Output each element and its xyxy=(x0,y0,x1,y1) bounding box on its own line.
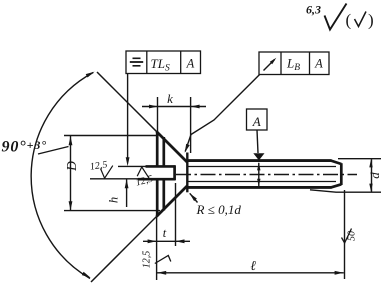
runout symbol xyxy=(264,60,275,71)
dimension d extension top xyxy=(338,158,381,160)
slot top edge thick xyxy=(146,165,176,168)
slot top edge extension thin xyxy=(118,165,146,167)
dimension t extension right xyxy=(175,183,177,246)
svg-text:): ) xyxy=(368,11,374,30)
datum leader xyxy=(257,130,258,153)
svg-text:A: A xyxy=(252,114,261,129)
svg-text:(: ( xyxy=(346,11,352,30)
symmetry symbol xyxy=(133,57,141,59)
dimension l extension right xyxy=(344,190,346,279)
dimension D line xyxy=(70,136,72,210)
dimension d extension bottom xyxy=(310,190,381,192)
head inner line upper part xyxy=(162,137,165,166)
svg-text:A: A xyxy=(186,57,195,71)
dimension d line xyxy=(371,159,373,192)
roughness 50 xyxy=(342,229,352,244)
svg-text:50: 50 xyxy=(347,231,358,241)
dimension l line xyxy=(157,272,344,274)
dimension k extension right xyxy=(190,97,192,153)
head inner line lower part xyxy=(162,180,165,211)
svg-text:D: D xyxy=(64,161,79,172)
datum triangle xyxy=(253,153,264,160)
label leader 90deg xyxy=(38,147,69,155)
datum A box xyxy=(247,109,268,130)
shank bottom line xyxy=(187,186,332,189)
slot bottom edge extension thin xyxy=(90,178,139,180)
center line xyxy=(176,174,357,176)
svg-text:12,5: 12,5 xyxy=(142,251,153,269)
cone edge upper thick xyxy=(157,132,188,163)
chamfer bottom xyxy=(331,184,341,187)
chamfer top xyxy=(331,161,341,164)
svg-text:d: d xyxy=(367,172,382,179)
thread minor top line xyxy=(188,166,336,168)
dimension k line xyxy=(142,106,206,108)
dimension D extension top xyxy=(64,135,157,137)
dimension t extension left / l extension left xyxy=(156,216,158,280)
dimension t line xyxy=(143,240,190,242)
end face xyxy=(340,163,343,185)
dimension k extension left xyxy=(157,97,159,133)
shank top line xyxy=(187,159,332,162)
cone base junction line xyxy=(186,153,188,193)
svg-text:LB: LB xyxy=(286,56,300,74)
svg-text:k: k xyxy=(167,91,173,106)
arc arrowhead bottom xyxy=(82,272,91,278)
dimension D extension bottom xyxy=(64,210,160,212)
slot bottom closure xyxy=(173,165,176,180)
svg-text:TLS: TLS xyxy=(151,56,170,74)
arc arrowhead top xyxy=(86,72,95,78)
svg-text:t: t xyxy=(163,226,167,240)
cone edge lower thick xyxy=(157,186,188,217)
head face line upper part xyxy=(156,132,159,166)
head face line lower part xyxy=(156,180,159,217)
slot bottom edge thick xyxy=(138,178,176,181)
svg-text:R ≤ 0,1d: R ≤ 0,1d xyxy=(196,202,242,217)
fillet radius leader xyxy=(190,193,198,202)
svg-text:h: h xyxy=(107,197,121,203)
tolerance frame TLs leader xyxy=(127,74,129,161)
dimension h line xyxy=(126,179,128,207)
svg-text:6,3: 6,3 xyxy=(306,3,321,17)
svg-text:ℓ: ℓ xyxy=(250,258,256,273)
roughness 12,5 under slot top line xyxy=(137,167,149,179)
cone edge extension lower diagonal xyxy=(91,186,188,283)
tolerance frame LB box xyxy=(259,52,329,75)
thread minor bottom line xyxy=(188,181,336,183)
cone edge extension upper diagonal xyxy=(97,72,188,163)
tolerance frame TLs box xyxy=(126,51,201,74)
svg-text:A: A xyxy=(314,57,323,71)
shank diameter dimension line xyxy=(258,163,260,187)
angle arc 90deg xyxy=(31,73,93,279)
svg-text:12,5: 12,5 xyxy=(89,159,108,172)
tolerance frame LB leader xyxy=(185,75,259,152)
